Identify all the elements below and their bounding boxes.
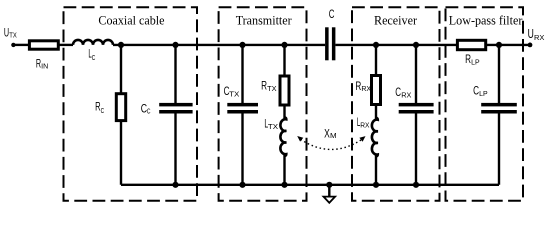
svg-text:Receiver: Receiver	[374, 13, 417, 27]
svg-text:Coaxial cable: Coaxial cable	[98, 13, 164, 27]
svg-text:Transmitter: Transmitter	[236, 13, 292, 27]
svg-text:RX: RX	[401, 92, 412, 99]
svg-text:RX: RX	[360, 122, 370, 129]
svg-text:C: C	[395, 86, 401, 99]
svg-text:C: C	[92, 55, 96, 62]
svg-text:Low-pass filter: Low-pass filter	[449, 13, 523, 27]
svg-text:M: M	[330, 133, 337, 140]
svg-text:C: C	[101, 108, 105, 115]
svg-text:RX: RX	[361, 86, 371, 93]
svg-text:TX: TX	[229, 91, 240, 98]
svg-text:LP: LP	[479, 91, 488, 98]
svg-text:LP: LP	[471, 60, 480, 67]
svg-text:U: U	[528, 27, 534, 41]
svg-text:C: C	[329, 8, 335, 21]
svg-text:C: C	[147, 109, 151, 116]
svg-text:RX: RX	[534, 35, 545, 42]
svg-text:TX: TX	[268, 124, 279, 131]
svg-text:TX: TX	[267, 86, 277, 93]
svg-text:TX: TX	[9, 33, 17, 40]
svg-text:IN: IN	[41, 64, 48, 71]
